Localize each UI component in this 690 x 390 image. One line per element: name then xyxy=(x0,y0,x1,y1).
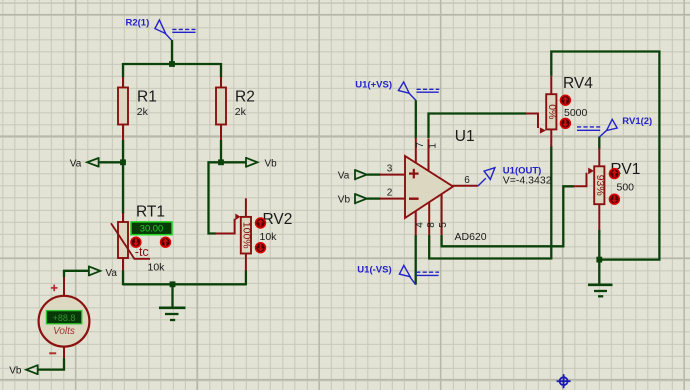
voltmeter xyxy=(39,277,90,359)
RV1 decrement button xyxy=(610,194,620,204)
svg-text:R2(1): R2(1) xyxy=(126,18,150,29)
node junction ground xyxy=(170,281,176,287)
svg-text:4: 4 xyxy=(415,222,426,228)
wire voltmeter plus to Va terminal xyxy=(64,271,89,278)
svg-text:U1: U1 xyxy=(455,128,475,145)
svg-text:R2: R2 xyxy=(235,89,255,106)
origin marker crosshair xyxy=(557,374,571,388)
wire big loop RV4 top to right edge down to ground xyxy=(551,52,659,260)
wire pin 8 down and right to RV4 bottom xyxy=(429,235,551,258)
svg-text:8: 8 xyxy=(426,222,437,228)
wire Vb terminal to pin 2 xyxy=(367,197,381,199)
RV4 decrement button xyxy=(561,118,571,128)
node junction bridge top xyxy=(169,61,175,67)
thermistor RT1 xyxy=(111,204,172,274)
wire output probe stub xyxy=(503,165,552,186)
wire Vb node left and down to RV2 wiper xyxy=(209,162,222,233)
wire RV4 bottom vertical xyxy=(550,146,552,259)
svg-text:Vb: Vb xyxy=(9,366,22,377)
wire voltmeter minus to Vb terminal xyxy=(38,358,64,369)
svg-text:93%: 93% xyxy=(594,175,606,196)
svg-text:2: 2 xyxy=(387,187,393,198)
svg-text:5000: 5000 xyxy=(564,107,588,119)
op-amp U1 AD620 xyxy=(380,128,487,243)
wire Vb node to terminal xyxy=(221,161,246,163)
svg-text:Va: Va xyxy=(338,171,350,182)
potentiometer RV4 xyxy=(526,75,593,147)
voltage probe U1(+VS) xyxy=(355,80,439,101)
svg-text:500: 500 xyxy=(617,182,635,194)
svg-text:7: 7 xyxy=(415,142,426,148)
wire Va terminal to node xyxy=(99,161,123,163)
svg-text:10k: 10k xyxy=(260,231,278,243)
svg-text:2k: 2k xyxy=(235,106,247,118)
svg-text:+88.8: +88.8 xyxy=(53,313,76,323)
wire R1 bottom to Va node xyxy=(122,140,124,162)
ground symbol left xyxy=(159,284,186,320)
wire ground row xyxy=(123,283,246,285)
svg-text:Vb: Vb xyxy=(265,159,278,170)
svg-text:0%: 0% xyxy=(546,104,558,119)
svg-text:30.00: 30.00 xyxy=(140,223,163,234)
svg-text:100%: 100% xyxy=(241,222,253,249)
terminal Va (op-amp input) xyxy=(338,169,367,181)
potentiometer RV1 xyxy=(574,148,641,230)
RV4 increment button xyxy=(561,95,571,105)
svg-text:R1: R1 xyxy=(137,89,157,106)
wire R1 top xyxy=(122,63,124,78)
wire pin 5 down right and up to RV1 wiper xyxy=(442,186,574,246)
terminal Va (voltmeter) xyxy=(89,266,118,280)
wire RV1 top stub xyxy=(598,137,600,149)
voltage probe U1(-VS) xyxy=(357,264,439,284)
terminal Vb (voltmeter) xyxy=(9,364,38,376)
wire probe stub to bridge top xyxy=(171,40,173,64)
svg-text:6: 6 xyxy=(464,175,470,186)
wire RV2 bottom to ground row xyxy=(245,271,247,286)
RT1 increment button xyxy=(161,237,171,247)
wire pin 1 up and to RV4 wiper xyxy=(429,114,527,139)
RT1 decrement button xyxy=(131,237,141,247)
svg-text:5: 5 xyxy=(438,222,449,228)
wire bridge top xyxy=(123,63,221,65)
ground symbol right xyxy=(588,260,613,297)
terminal Va (bridge) xyxy=(70,157,99,169)
wire RT1 bottom to ground row xyxy=(122,271,124,286)
terminal Vb (bridge) xyxy=(246,157,277,170)
svg-text:RV4: RV4 xyxy=(563,75,593,92)
svg-text:3: 3 xyxy=(387,163,393,174)
wire RV1 bottom to ground junction xyxy=(598,230,600,260)
svg-text:Va: Va xyxy=(106,268,118,279)
node junction Vb xyxy=(218,159,224,165)
svg-text:AD620: AD620 xyxy=(455,231,487,243)
node junction Va xyxy=(120,159,126,165)
resistor R1 xyxy=(118,77,157,141)
potentiometer RV2 xyxy=(216,198,293,271)
svg-text:U1(+VS): U1(+VS) xyxy=(355,80,392,91)
RV2 increment button xyxy=(256,218,266,228)
svg-text:RV2: RV2 xyxy=(263,211,293,228)
wire pin 7 up xyxy=(415,100,417,138)
wire pin 4 down xyxy=(415,235,417,285)
voltage probe RV1(2) xyxy=(577,116,652,137)
svg-text:1: 1 xyxy=(427,143,438,149)
voltage probe R2(1) xyxy=(126,18,196,41)
resistor R2 xyxy=(216,63,255,141)
svg-text:RV1(2): RV1(2) xyxy=(622,116,652,127)
voltage probe U1(OUT) xyxy=(478,168,495,186)
svg-text:Vb: Vb xyxy=(338,195,351,206)
svg-text:RT1: RT1 xyxy=(136,204,165,221)
RV2 decrement button xyxy=(256,243,266,253)
svg-text:10k: 10k xyxy=(148,262,166,274)
terminal Vb (op-amp input) xyxy=(338,193,367,205)
RV1 increment button xyxy=(610,169,620,179)
wire R2 bottom to Vb node xyxy=(220,140,222,162)
svg-text:Va: Va xyxy=(70,159,82,170)
wire Va node down to RT1 xyxy=(122,162,124,213)
wire Va terminal to pin 3 xyxy=(367,173,381,175)
svg-text:Volts: Volts xyxy=(53,326,75,337)
svg-text:U1(-VS): U1(-VS) xyxy=(357,264,391,275)
svg-text:V=-4.3432: V=-4.3432 xyxy=(503,175,552,187)
svg-text:2k: 2k xyxy=(137,106,149,118)
node junction right ground xyxy=(596,257,602,263)
